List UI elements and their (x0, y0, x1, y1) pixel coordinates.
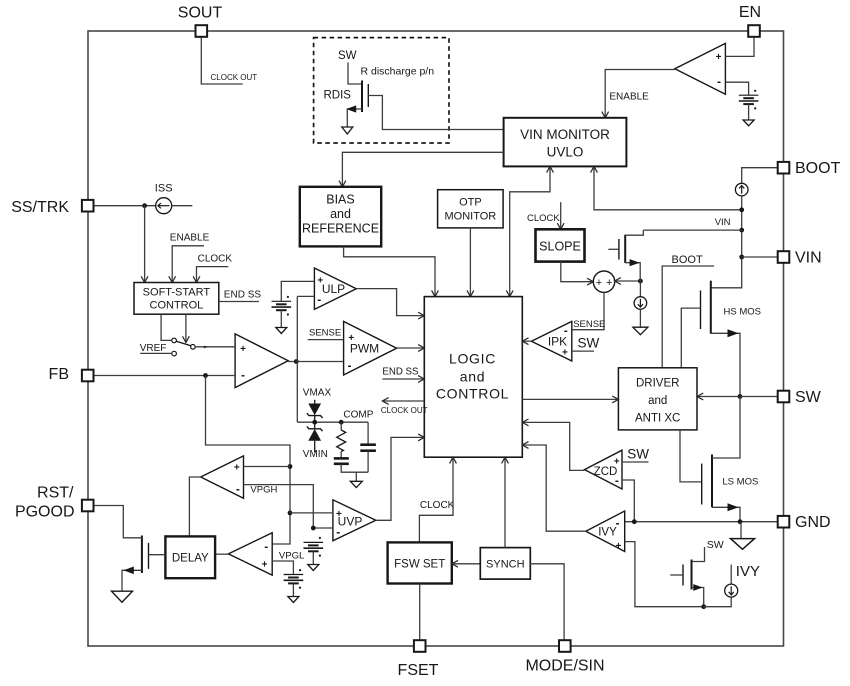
svg-text:ANTI XC: ANTI XC (635, 413, 680, 425)
block SYNCH (480, 548, 530, 580)
op-amp PWM comparator (344, 321, 397, 375)
wire current source to ground (639, 309, 641, 326)
pin MODE/SIN (559, 640, 571, 652)
svg-text:CLOCK: CLOCK (420, 500, 455, 511)
svg-text:R discharge p/n: R discharge p/n (361, 66, 435, 78)
wire VIN pin connection (742, 256, 778, 258)
wire SW into ZCD + (622, 461, 649, 463)
current source IVY (725, 584, 738, 597)
wire RDIS source (347, 109, 362, 127)
svg-text:COMP: COMP (343, 410, 373, 421)
wire ULP + to reference (281, 281, 314, 301)
wire compensation common to ground (355, 472, 357, 481)
wire CLOCK OUT from LOGIC (382, 400, 424, 402)
wire VIN sense FET drain (625, 230, 643, 235)
wire VIN sense FET gate stub (608, 248, 618, 250)
pin SOUT (196, 25, 208, 37)
svg-text:ISS: ISS (155, 183, 173, 195)
wire IVY + sense (625, 542, 704, 607)
wire PWM output to LOGIC (397, 347, 425, 349)
block LOGIC and CONTROL (424, 297, 522, 458)
wire VIN rail vertical (711, 196, 742, 288)
svg-text:CLOCK: CLOCK (527, 213, 560, 224)
current source BOOT charge (735, 183, 748, 196)
op-amp EN comparator U_EN (675, 43, 726, 94)
capacitor compensation C2 (360, 445, 376, 451)
svg-text:UVLO: UVLO (547, 145, 584, 160)
wire current sense into summing node (615, 280, 641, 282)
wire RDIS drain (348, 63, 361, 85)
svg-text:-: - (264, 539, 268, 553)
wire EN comparator - to reference (725, 82, 748, 95)
svg-text:END SS: END SS (224, 289, 262, 300)
wire GND rail (625, 521, 778, 523)
junction COMP node (294, 359, 299, 364)
transistor LS MOS channel (711, 455, 713, 508)
svg-text:SW: SW (627, 447, 649, 462)
wire SENSE input to IPK (572, 329, 605, 331)
wire ZCD - to GND net (622, 480, 634, 522)
wire UVP output to LOGIC (376, 437, 425, 520)
wire SW input to IPK (572, 350, 594, 352)
wire VPGL output to DELAY (215, 553, 228, 555)
ground EN reference (743, 120, 754, 126)
ground UVP threshold (308, 565, 319, 571)
pin GND (778, 516, 790, 528)
op-amp UVP comparator (333, 500, 376, 541)
junction ZCD/IVY sense node (632, 519, 637, 524)
op-amp ZCD comparator (585, 450, 623, 489)
wire IVY output to LOGIC (522, 445, 586, 531)
op-amp VPGH comparator (201, 456, 244, 498)
svg-text:EN: EN (739, 4, 761, 21)
transistor LS MOS gate bar (701, 464, 703, 505)
capacitor compensation C1 (334, 458, 349, 463)
wire resistor to cap (340, 452, 342, 459)
wire BOOT pin to rail (742, 168, 778, 184)
svg-text:SENSE: SENSE (309, 328, 341, 339)
svg-text:ENABLE: ENABLE (170, 233, 210, 244)
junction zener clamp (312, 420, 317, 425)
battery EN threshold reference (739, 90, 759, 110)
pin BOOT (778, 162, 790, 174)
arrow LS MOS source (728, 503, 739, 511)
wire SYNCH to LOGIC (504, 457, 506, 547)
svg-text:PWM: PWM (350, 341, 379, 355)
ground slope bias source (633, 327, 648, 335)
svg-text:SLOPE: SLOPE (539, 240, 581, 254)
svg-text:+: + (240, 344, 246, 355)
junction summing/current-source node (638, 279, 643, 284)
battery VPGL threshold (284, 569, 304, 589)
junction IVY sense node (701, 604, 706, 609)
wire VIN sense FET source to summing junction (625, 263, 640, 281)
wire RDIS gate to VIN MONITOR (368, 96, 503, 130)
op-amp ULP comparator (314, 268, 356, 309)
ground PGOOD FET (112, 591, 133, 602)
current source ISS (156, 198, 172, 214)
svg-text:VREF: VREF (140, 343, 167, 354)
svg-text:+: + (614, 457, 620, 468)
node switch pole (191, 345, 196, 350)
ground ULP reference (276, 328, 287, 334)
junction VIN rail / sense tap (739, 228, 744, 233)
svg-text:CONTROL: CONTROL (436, 386, 509, 402)
wire BOOT net to DRIVER (662, 266, 714, 368)
block OTP MONITOR (438, 190, 504, 228)
wire error amp output to PWM - (288, 361, 343, 363)
wire SS node to SOFT-START (144, 206, 146, 283)
wire END SS into LOGIC (382, 378, 424, 380)
wire sense tap to FET drain (643, 229, 741, 231)
wire IPK output to LOGIC (522, 340, 531, 342)
wire COMP to resistor (340, 422, 342, 430)
resistor compensation R (337, 430, 346, 452)
switch lever (176, 341, 191, 346)
svg-text:-: - (236, 482, 240, 496)
junction VIN rail / VIN pin (739, 255, 744, 260)
block SLOPE (536, 229, 585, 261)
svg-text:-: - (317, 293, 321, 307)
transistor PGOOD FET gate bar (148, 543, 150, 569)
pin FSET (414, 640, 426, 652)
svg-text:SENSE: SENSE (573, 319, 605, 330)
junction FB / UVP+ (288, 511, 293, 516)
svg-text:BIAS: BIAS (326, 193, 355, 207)
transistor VIN sense FET channel (624, 235, 626, 263)
transistor PGOOD FET channel (141, 536, 143, 574)
wire FB node to PGOOD comparators (206, 376, 291, 467)
svg-text:+: + (317, 276, 323, 287)
svg-text:VMAX: VMAX (303, 387, 332, 398)
wire ULP output to LOGIC (356, 289, 424, 316)
svg-text:LOGIC: LOGIC (449, 350, 496, 366)
svg-text:+: + (716, 52, 722, 63)
svg-text:VPGL: VPGL (279, 550, 304, 561)
wire CLOCK into SLOPE (560, 202, 562, 229)
op-amp IVY comparator (586, 511, 625, 552)
svg-text:FSET: FSET (398, 662, 439, 679)
op-amp VPGL comparator (228, 533, 272, 575)
wire MODE/SIN to SYNCH (530, 564, 564, 640)
battery ULP reference (272, 296, 292, 316)
svg-text:VPGH: VPGH (250, 485, 277, 496)
wire IVY FET drain stub (692, 547, 705, 562)
wire LS MOS drain to SW (712, 397, 740, 459)
wire COMP to RC network (297, 421, 368, 423)
svg-text:ENABLE: ENABLE (609, 92, 649, 103)
svg-text:FB: FB (49, 366, 69, 383)
block FSW SET (388, 542, 452, 583)
wire DELAY to PGOOD FET gate (149, 554, 165, 556)
svg-text:SS/TRK: SS/TRK (11, 199, 69, 216)
junction VIN rail / monitor (739, 207, 744, 212)
wire SENSE into PWM + (308, 339, 344, 341)
op-amp error amplifier EA (235, 334, 288, 388)
svg-text:DRIVER: DRIVER (636, 377, 679, 389)
svg-text:VIN: VIN (715, 217, 731, 228)
svg-text:-: - (564, 323, 568, 337)
junction SW node (738, 394, 743, 399)
svg-text:IVY: IVY (736, 563, 760, 580)
transistor VIN sense FET gate bar (618, 239, 620, 260)
wire EN reference to ground (748, 104, 750, 120)
svg-text:+: + (596, 277, 602, 289)
wire cap2 to common (367, 451, 369, 472)
svg-text:FSW SET: FSW SET (394, 559, 445, 571)
wire VIN MONITOR to LOGIC (bidir) (510, 166, 550, 296)
svg-text:SOUT: SOUT (178, 5, 223, 22)
ground compensation network (350, 481, 362, 487)
svg-text:-: - (615, 473, 619, 487)
transistor IVY FET channel (691, 560, 693, 590)
svg-text:RDIS: RDIS (324, 90, 352, 102)
svg-text:-: - (616, 516, 620, 530)
svg-text:SW: SW (795, 389, 822, 406)
svg-text:SYNCH: SYNCH (486, 559, 525, 571)
wire ZCD output to LOGIC (522, 422, 584, 470)
wire HS MOS gate from DRIVER (681, 308, 700, 368)
block BIAS and REFERENCE (300, 187, 381, 247)
svg-text:+: + (562, 348, 568, 359)
svg-text:SW: SW (707, 539, 724, 551)
svg-text:BOOT: BOOT (795, 160, 841, 177)
svg-text:and: and (330, 207, 351, 221)
ground VPGL threshold (288, 597, 299, 603)
block SOFT-START CONTROL (134, 283, 219, 315)
transistor RDIS gate bar (367, 84, 369, 107)
svg-text:LS MOS: LS MOS (722, 476, 758, 487)
current source slope bias (634, 297, 647, 310)
svg-text:CONTROL: CONTROL (150, 300, 204, 312)
wire VPGL + to threshold (272, 561, 293, 575)
arrow VIN sense FET source (630, 259, 640, 266)
diode VMAX zener (307, 400, 323, 422)
wire FSW SET clock to LOGIC (419, 457, 453, 542)
pin SS/TRK (82, 200, 94, 212)
wire ULP reference to ground (280, 310, 282, 327)
arrow HS MOS source (728, 329, 739, 337)
svg-text:SW: SW (578, 336, 600, 351)
svg-text:SOFT-START: SOFT-START (143, 287, 211, 299)
wire UVP - to threshold (313, 527, 333, 529)
ground RDIS (342, 127, 353, 134)
wire SOUT clock out stub (201, 37, 242, 84)
svg-text:DELAY: DELAY (172, 553, 209, 565)
wire VIN MONITOR sense from VIN rail (594, 166, 742, 209)
wire HS MOS source to SW (711, 333, 740, 396)
summing node adder (593, 271, 614, 292)
junction FB / VPGH+ (288, 464, 293, 469)
svg-text:VIN: VIN (795, 249, 822, 266)
svg-text:CLOCK OUT: CLOCK OUT (381, 406, 428, 415)
dashed box R discharge block (314, 38, 449, 143)
arrow IVY FET source (693, 584, 703, 591)
svg-text:-: - (717, 75, 721, 89)
wire SW pin connection (740, 396, 778, 398)
svg-text:MODE/SIN: MODE/SIN (525, 658, 604, 675)
svg-text:-: - (348, 359, 352, 373)
svg-text:and: and (648, 395, 667, 407)
pin RST/PGOOD (82, 500, 94, 512)
diode VMIN zener (307, 422, 323, 452)
ground GND pin (731, 539, 755, 550)
pin FB (82, 370, 94, 382)
junction UVP threshold node (311, 526, 316, 531)
battery UVP threshold (304, 537, 324, 557)
wire COMP right branch (367, 422, 369, 444)
wire IVY current source stub (730, 565, 732, 585)
wire OTP MONITOR to LOGIC (469, 228, 471, 297)
wire ENABLE into SOFT-START (172, 246, 204, 283)
junction SS/TRK node (142, 203, 147, 208)
wire EN pin to comparator + (725, 37, 754, 57)
wire UVP threshold to ground (312, 551, 314, 564)
transistor HS MOS channel (710, 281, 712, 334)
wire ENABLE from EN comparator to VIN MONITOR (605, 70, 675, 118)
svg-text:+: + (234, 462, 240, 473)
svg-text:END SS: END SS (382, 367, 419, 378)
block VIN MONITOR UVLO (504, 118, 627, 167)
wire junction to current source (639, 281, 641, 297)
svg-text:CLOCK OUT: CLOCK OUT (211, 73, 258, 82)
wire SLOPE to summing node (561, 262, 594, 282)
transistor RDIS channel (361, 81, 363, 113)
svg-text:+: + (262, 559, 268, 570)
svg-text:OTP: OTP (459, 197, 482, 209)
wire FB pin to error amp - (94, 375, 236, 377)
wire SW feedback into DRIVER (697, 396, 740, 398)
svg-text:RST/: RST/ (37, 484, 74, 501)
svg-text:-: - (336, 525, 340, 539)
tick on VREF wire (204, 346, 208, 349)
svg-text:VIN MONITOR: VIN MONITOR (520, 127, 610, 142)
svg-text:VMIN: VMIN (303, 449, 328, 460)
junction GND node (738, 519, 743, 524)
wire COMP vertical (296, 296, 298, 422)
svg-text:CLOCK: CLOCK (198, 254, 233, 265)
wire SYNCH to FSW SET (452, 563, 481, 565)
wire SOFT-START to switch throw (161, 314, 171, 340)
block DELAY (165, 536, 215, 578)
wire VPGH - to threshold (244, 485, 314, 528)
wire PGOOD FET source (122, 570, 142, 590)
junction COMP pin node (339, 420, 344, 425)
svg-text:REFERENCE: REFERENCE (302, 222, 379, 236)
svg-text:PGOOD: PGOOD (15, 504, 75, 521)
wire VPGL threshold to ground (292, 583, 294, 596)
wire LOGIC to DRIVER (522, 398, 618, 400)
svg-text:and: and (460, 369, 485, 385)
wire FB sense chain (272, 467, 290, 545)
svg-text:+: + (336, 509, 342, 520)
wire summing node to IPK sense (603, 292, 605, 329)
arrow RDIS source (346, 105, 356, 112)
svg-text:+: + (606, 277, 612, 289)
svg-text:MONITOR: MONITOR (445, 211, 497, 223)
wire ISS stub (172, 205, 193, 207)
wire RST/PGOOD pin to FET drain (94, 506, 142, 538)
svg-text:HS MOS: HS MOS (724, 307, 761, 318)
svg-text:GND: GND (795, 514, 831, 531)
wire LS MOS source to GND (712, 507, 740, 521)
wire SS/TRK pin (94, 205, 156, 207)
svg-text:+: + (615, 541, 621, 552)
chip boundary border (88, 31, 784, 646)
svg-text:+: + (348, 333, 354, 344)
svg-text:-: - (241, 368, 245, 382)
wire ULP - to COMP node (297, 295, 314, 297)
wire FSET pin to FSW SET (419, 584, 421, 641)
block DRIVER and ANTI XC (618, 368, 697, 430)
wire SOFT-START switch control (185, 314, 187, 342)
wire cap1 to common (341, 464, 368, 472)
svg-text:ULP: ULP (322, 282, 345, 296)
wire VPGH output to DELAY (189, 477, 200, 536)
svg-text:SW: SW (338, 50, 357, 62)
arrow PGOOD FET source (123, 567, 134, 575)
wire END SS output (219, 301, 259, 303)
node switch throw VREF (172, 351, 177, 356)
wire DRIVER to LS MOS gate (680, 430, 702, 482)
op-amp IPK comparator (531, 321, 571, 361)
wire IVY current source to sense (704, 597, 732, 607)
wire GND node to ground symbol (740, 522, 742, 539)
wire VIN MONITOR to BIAS (342, 152, 503, 187)
svg-text:IVY: IVY (598, 526, 617, 538)
transistor HS MOS gate bar (700, 290, 702, 329)
wire IVY FET gate stub (670, 574, 683, 576)
wire CLOCK into SOFT-START (197, 267, 229, 283)
pin SW (778, 391, 790, 403)
wire VREF to switch throw (140, 352, 171, 354)
junction FB node (203, 373, 208, 378)
node switch throw SS (172, 338, 177, 343)
transistor IVY FET gate bar (682, 565, 684, 586)
wire UVP + from FB (290, 512, 333, 514)
wire BIAS to LOGIC (344, 246, 435, 296)
wire VPGH + from FB (244, 466, 291, 468)
svg-text:BOOT: BOOT (672, 254, 703, 266)
pin EN (748, 25, 760, 37)
wire IVY FET source (692, 588, 704, 607)
wire switch pole to error amp + (195, 346, 235, 348)
pin VIN (778, 251, 790, 263)
